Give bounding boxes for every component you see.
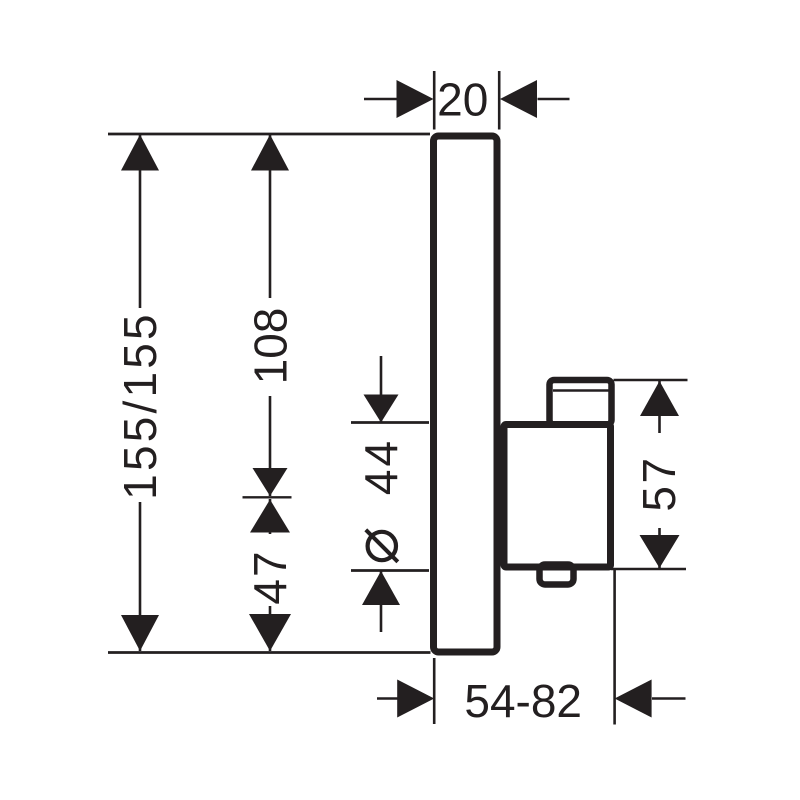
arrow 108 bottom [253, 468, 288, 496]
top extension line [108, 133, 430, 136]
dim 44 bottom tick [351, 569, 429, 572]
diameter symbol slash [366, 530, 398, 562]
valve body [504, 425, 611, 568]
arrow 54-82 right [615, 680, 652, 718]
dim 44 upper stub [380, 356, 383, 422]
dim 54-82 left extension line [433, 658, 436, 724]
svg-text:44: 44 [355, 438, 407, 495]
dim 108 line lower segment [269, 396, 272, 496]
dim 57 bottom extension line [611, 568, 686, 571]
dim 20 right extension line [498, 71, 501, 130]
dim 108 line upper segment [269, 134, 272, 298]
dim 54-82 left leader [377, 697, 398, 700]
arrow 155 bottom [121, 615, 159, 651]
arrow 47 top [250, 500, 290, 533]
svg-text:108: 108 [245, 308, 297, 385]
arrow dim20 right [500, 80, 537, 118]
arrow 54-82 left [397, 680, 434, 718]
svg-text:47: 47 [244, 549, 296, 604]
dim 54-82 right leader [652, 697, 686, 700]
arrow 57 bottom [640, 535, 680, 568]
dim 44 top tick [351, 421, 429, 424]
svg-text:155/155: 155/155 [114, 311, 166, 500]
dim 47 line upper segment [269, 499, 272, 534]
tick 108/47 [243, 496, 292, 498]
arrow 44 top [364, 395, 399, 423]
bottom extension line [108, 651, 431, 654]
dim 20 left leader [364, 98, 397, 101]
arrow 108 top [251, 135, 289, 171]
svg-text:20: 20 [437, 74, 488, 126]
diameter symbol circle [368, 532, 396, 560]
dim 155/155 line lower segment [139, 502, 142, 651]
dim 20 right leader [538, 98, 570, 101]
arrow 155 top [121, 135, 159, 171]
dim 44 lower stub [380, 571, 383, 632]
dim 57 upper segment [658, 381, 661, 433]
arrow 47 bottom [249, 614, 291, 651]
dim 155/155 line upper segment [139, 134, 142, 308]
dim 57 lower segment [658, 528, 661, 568]
cover plate [434, 136, 498, 652]
dim 54-82 right extension line [613, 570, 616, 725]
arrow 57 top [640, 381, 679, 416]
arrow dim20 left [397, 80, 434, 118]
dim 57 top extension line [614, 379, 688, 382]
bottom tab [540, 565, 574, 585]
dim 47 line lower segment [269, 606, 272, 651]
dim 20 left extension line [433, 71, 436, 130]
arrow 44 bottom [362, 571, 400, 605]
svg-text:57: 57 [633, 455, 685, 511]
stem cap joint line [553, 389, 609, 391]
svg-text:54-82: 54-82 [464, 675, 582, 727]
cartridge stem [550, 380, 612, 425]
